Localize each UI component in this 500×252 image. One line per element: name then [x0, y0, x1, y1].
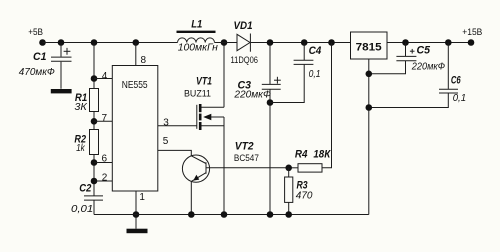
node C6 ground junction — [366, 104, 373, 111]
node pin4 — [91, 75, 98, 82]
wire feedback vertical — [322, 43, 332, 168]
wire R1 to pin7 — [93, 112, 95, 130]
svg-text:470мкФ: 470мкФ — [19, 66, 55, 78]
node pin6 — [91, 159, 98, 166]
node C4 top — [301, 39, 308, 46]
node junction C1 top — [58, 39, 65, 46]
svg-text:+5В: +5В — [28, 27, 43, 37]
diode VD1 — [231, 20, 259, 65]
capacitor C4 — [294, 43, 322, 81]
wire bottom rail — [94, 214, 369, 216]
node rail VT1 source — [221, 211, 228, 218]
wire drain up — [223, 43, 225, 108]
wire source down — [223, 117, 225, 215]
node rail C3 — [267, 211, 274, 218]
resistor R3 — [285, 168, 313, 203]
svg-text:8: 8 — [141, 55, 147, 66]
wire C3 down to rail — [269, 90, 271, 215]
svg-text:NE555: NE555 — [122, 80, 148, 91]
svg-text:220мкФ: 220мкФ — [411, 61, 445, 73]
node pin1 rail junction — [133, 211, 140, 218]
svg-text:5: 5 — [163, 136, 169, 147]
svg-text:3: 3 — [163, 117, 169, 128]
node base/R4/R3 junction — [285, 165, 292, 172]
node C5 ground junction — [366, 71, 373, 78]
node junction R1 top — [91, 39, 98, 46]
svg-text:1: 1 — [139, 192, 145, 203]
svg-text:2: 2 — [102, 172, 108, 183]
regulator U2 7815 — [351, 32, 388, 59]
svg-text:VT1: VT1 — [196, 75, 212, 87]
wire C6 bottom to ground line — [369, 93, 449, 107]
wire pin 7 — [94, 120, 112, 122]
capacitor C2 — [71, 182, 103, 215]
wire pin 8 — [135, 43, 137, 66]
svg-text:C1: C1 — [33, 51, 46, 63]
node pin2 — [91, 178, 98, 185]
svg-text:220мкФ: 220мкФ — [233, 88, 271, 100]
wire C4 bottom to C3 — [270, 65, 304, 103]
wire pin 2 — [94, 180, 112, 182]
node C3/C4 junction — [267, 99, 274, 106]
wire top rail output segment — [387, 42, 471, 44]
node R4 feedback top — [328, 39, 335, 46]
node C6 top — [445, 39, 452, 46]
capacitor C1 — [19, 43, 72, 89]
svg-text:C5: C5 — [417, 45, 431, 57]
wire top rail left segment — [43, 42, 178, 44]
transistor VT2 — [182, 155, 209, 182]
svg-text:470: 470 — [296, 189, 313, 201]
wire R3 bottom — [288, 202, 290, 214]
svg-text:VT2: VT2 — [235, 141, 254, 153]
svg-text:C6: C6 — [451, 74, 461, 86]
svg-text:7: 7 — [102, 113, 108, 124]
svg-text:18К: 18К — [313, 149, 331, 161]
capacitor C6 — [439, 43, 466, 105]
wire pin 5 — [158, 150, 191, 155]
wire C2 bottom to rail — [93, 201, 95, 215]
wire R4 left — [289, 167, 298, 169]
svg-text:BC547: BC547 — [234, 153, 259, 163]
capacitor C5 — [396, 43, 445, 73]
IC U1 NE555 — [112, 66, 158, 192]
ground main — [127, 229, 148, 234]
wire VT2 base to divider — [206, 167, 289, 169]
wire 7815 ground down — [368, 59, 370, 215]
wire top rail mid segment — [251, 42, 351, 44]
node rail VT2 emitter — [188, 211, 195, 218]
svg-text:11DQ06: 11DQ06 — [231, 55, 259, 65]
transistor VT1 — [197, 104, 224, 130]
svg-text:C4: C4 — [309, 45, 322, 57]
wire pin 4 — [94, 78, 112, 80]
svg-text:0,01: 0,01 — [71, 203, 93, 215]
svg-text:0,1: 0,1 — [309, 68, 321, 80]
wire pin 3 to gate — [158, 125, 197, 127]
node C5 top — [402, 39, 409, 46]
svg-text:100мкГн: 100мкГн — [178, 42, 218, 54]
resistor R2 — [74, 130, 98, 155]
wire C5 bottom to ground line — [369, 61, 406, 74]
node L1-VD1 junction — [221, 39, 228, 46]
svg-text:4: 4 — [102, 71, 108, 82]
node junction pin8 — [133, 39, 140, 46]
svg-text:C2: C2 — [79, 182, 91, 194]
node C3 top — [267, 39, 274, 46]
svg-text:1k: 1k — [76, 142, 85, 154]
svg-text:7815: 7815 — [356, 41, 383, 53]
node +15V output terminal — [468, 39, 475, 46]
wire R2 to pin2 column — [93, 155, 95, 196]
svg-text:BUZ11: BUZ11 — [184, 88, 211, 98]
wire R1 column top — [93, 43, 95, 89]
svg-text:0,1: 0,1 — [453, 92, 466, 104]
node pin7 — [91, 118, 98, 125]
wire pin 6 — [94, 162, 112, 164]
wire L1 to VD1 — [215, 42, 238, 44]
svg-text:L1: L1 — [191, 19, 202, 31]
capacitor C3 — [233, 43, 280, 101]
svg-text:+15В: +15В — [462, 27, 482, 37]
resistor R4 — [295, 149, 331, 173]
wire VT2 emitter down — [190, 181, 192, 214]
node +5V input terminal — [39, 39, 46, 46]
wire pin 1 — [135, 191, 137, 229]
svg-text:R4: R4 — [295, 149, 308, 161]
svg-text:6: 6 — [102, 154, 108, 165]
svg-text:3К: 3К — [74, 101, 87, 113]
svg-text:VD1: VD1 — [234, 20, 253, 32]
resistor R1 — [74, 89, 98, 113]
inductor L1 — [177, 19, 219, 54]
ground C1 — [51, 89, 72, 93]
node rail R3 — [285, 211, 292, 218]
